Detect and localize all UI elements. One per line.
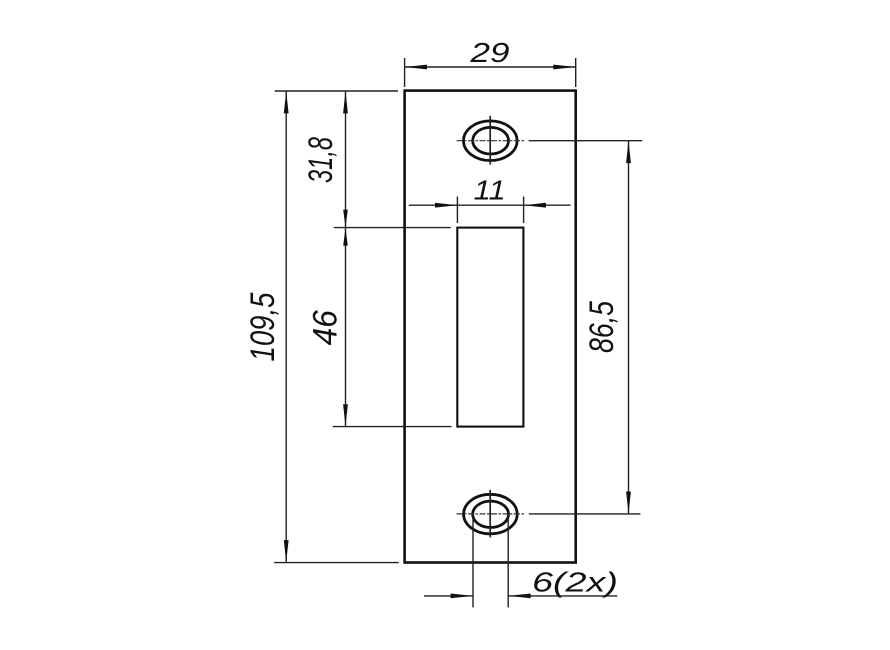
dim 46: value label (rotated) [307, 310, 345, 345]
svg-text:86,5: 86,5 [583, 301, 621, 353]
dim 11: right extension line [523, 197, 525, 224]
dim 29: dimension line [405, 66, 576, 68]
dim 6(2x): left arrowhead (points right) [451, 594, 473, 599]
top hole outer ellipse [464, 121, 518, 161]
dim 86,5: bottom arrowhead [626, 492, 631, 514]
dim 6(2x): right arrowhead (points left) [508, 594, 530, 599]
top hole horizontal centerline (dashed) [457, 140, 525, 142]
top hole vertical centerline [489, 116, 491, 165]
dim 6(2x): right dimension line segment [508, 595, 617, 597]
slot-top extension line [334, 227, 451, 229]
bottom hole inner ellipse [473, 501, 509, 527]
dim 11: dimension line [409, 204, 571, 206]
dim 109,5: bottom arrowhead [284, 540, 289, 562]
dim 29: right arrowhead [553, 65, 575, 70]
dim 86,5: bottom extension line (from bottom hole center) [529, 513, 641, 515]
bottom hole horizontal centerline (dashed) [457, 513, 525, 515]
svg-text:46: 46 [307, 310, 345, 345]
dim 31,8: bottom arrowhead [343, 210, 348, 228]
slot-bottom extension line [333, 426, 452, 428]
dim 31,8 / 46: shared dimension line [345, 91, 347, 427]
dim 6(2x): left extension line [472, 515, 474, 608]
dim 29: right extension line [575, 58, 577, 87]
svg-text:11: 11 [474, 174, 506, 205]
dim 11: left extension line [456, 197, 458, 224]
dim 86,5: top arrowhead [626, 141, 631, 163]
dim 29: left extension line [404, 58, 406, 87]
dim 109,5: value label (rotated) [244, 292, 282, 361]
dim 31,8: top arrowhead [343, 91, 348, 113]
left top extension line (plate top) [275, 90, 398, 92]
dim 6(2x): left dimension line segment [424, 595, 473, 597]
dim 11: right arrowhead (points left) [524, 203, 546, 208]
top hole inner ellipse [473, 127, 509, 154]
dim 109,5: dimension line [285, 91, 287, 563]
dim 46: top arrowhead [343, 228, 348, 246]
bottom hole vertical centerline [489, 490, 491, 538]
svg-text:6(2x): 6(2x) [532, 566, 618, 597]
dim 11: left arrowhead (points right) [435, 203, 457, 208]
dim 109,5: top arrowhead [284, 91, 289, 113]
dim 31,8: value label (rotated) [302, 137, 340, 183]
dim 29: left arrowhead [405, 65, 427, 70]
dim 86,5: value label (rotated) [583, 301, 621, 353]
svg-text:29: 29 [469, 37, 509, 68]
bottom hole outer ellipse [464, 494, 518, 534]
slot (latch opening) [457, 228, 523, 427]
plate outline [405, 91, 576, 563]
dim 86,5: top extension line (from top hole center) [529, 140, 643, 142]
svg-text:31,8: 31,8 [302, 137, 340, 183]
left bottom extension line (plate bottom) [274, 562, 399, 564]
dim 46: bottom arrowhead [343, 404, 348, 426]
dim 86,5: dimension line [628, 141, 630, 514]
dim 6(2x): right extension line [507, 515, 509, 608]
svg-text:109,5: 109,5 [244, 292, 282, 361]
